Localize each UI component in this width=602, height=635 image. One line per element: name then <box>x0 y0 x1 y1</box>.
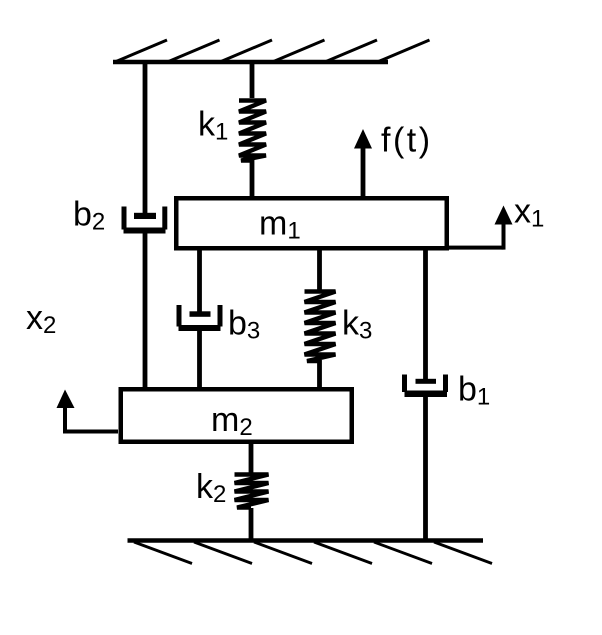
ceiling wall line <box>113 60 388 65</box>
floor hatch 3 <box>254 542 312 564</box>
wire mass m1 to spring k3 <box>317 248 322 291</box>
spring k3 <box>305 292 336 362</box>
ceiling hatch 4 <box>274 40 325 62</box>
svg-text:f(t): f(t) <box>381 122 433 160</box>
ceiling hatch 3 <box>221 40 272 62</box>
floor hatch 1 <box>134 542 192 564</box>
floor hatch 4 <box>314 542 372 564</box>
spring k2 <box>235 475 269 508</box>
floor hatch 5 <box>374 542 432 564</box>
floor hatch 2 <box>194 542 252 564</box>
ceiling hatch 1 <box>116 40 167 62</box>
force arrow f(t) <box>354 129 372 198</box>
floor hatch 6 <box>434 542 492 564</box>
x1 reference arrow <box>449 206 513 250</box>
damper b3 <box>177 305 223 331</box>
damper b1 <box>402 375 448 398</box>
wire spring k3 to mass m2 <box>317 360 322 389</box>
wire damper b2 to mass m2 <box>143 234 148 390</box>
floor wall line <box>128 538 484 543</box>
wire mass m2 to spring k2 <box>249 442 254 473</box>
damper b2 <box>122 207 168 234</box>
ceiling hatch 6 <box>379 40 430 62</box>
wire ceiling to spring k1 <box>250 60 255 98</box>
ceiling hatch 5 <box>326 40 377 62</box>
wire mass m1 to damper b1 piston <box>423 248 428 381</box>
spring k1 <box>239 101 266 161</box>
mass m1 <box>176 198 447 248</box>
wire damper b1 to floor <box>423 397 428 542</box>
wire damper b3 to mass m2 <box>197 331 202 389</box>
wire spring k1 to mass m1 <box>250 159 255 198</box>
mass m2 <box>121 389 352 442</box>
wire ceiling to damper b2 piston <box>143 60 148 217</box>
x2 reference arrow <box>57 390 119 434</box>
wire mass m1 to damper b3 piston <box>197 248 202 314</box>
ceiling hatch 2 <box>169 40 220 62</box>
wire spring k2 to floor <box>249 508 254 542</box>
